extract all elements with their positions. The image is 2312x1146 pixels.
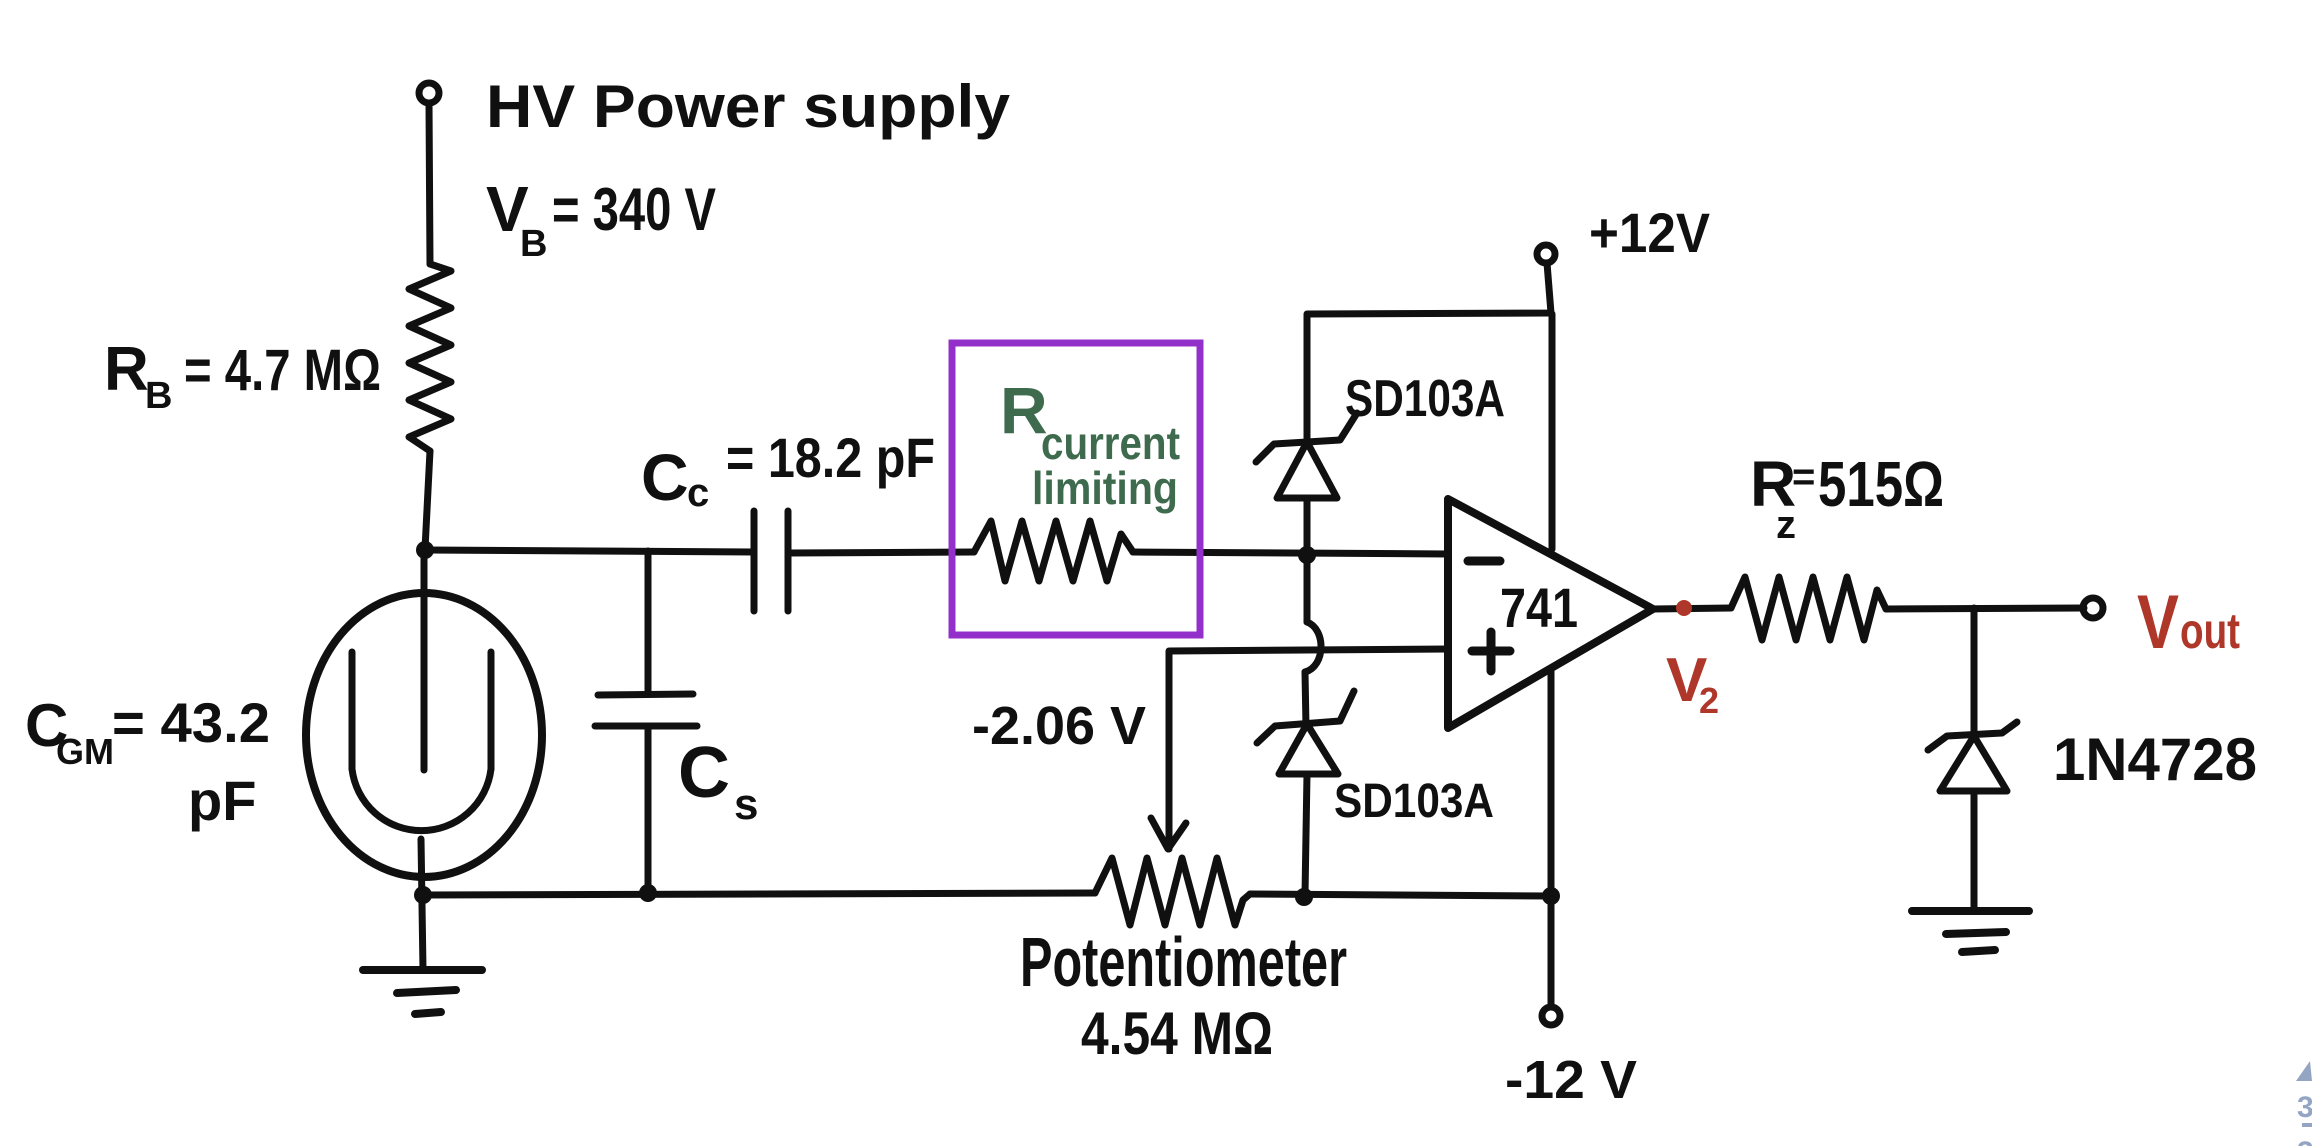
- svg-text:515Ω: 515Ω: [1818, 448, 1944, 520]
- svg-text:SD103A: SD103A: [1345, 370, 1505, 428]
- svg-text:= 43.2: = 43.2: [112, 691, 270, 754]
- svg-text:+12V: +12V: [1589, 201, 1710, 264]
- svg-text:limiting: limiting: [1032, 462, 1178, 514]
- svg-text:s: s: [734, 780, 758, 829]
- svg-text:1N4728: 1N4728: [2053, 726, 2257, 793]
- svg-text:out: out: [2180, 603, 2240, 659]
- svg-text:=: =: [1792, 455, 1815, 499]
- svg-text:C: C: [641, 440, 689, 514]
- svg-text:V: V: [2137, 580, 2179, 665]
- svg-text:B: B: [520, 223, 547, 265]
- svg-text:B: B: [145, 375, 172, 417]
- svg-text:SD103A: SD103A: [1334, 775, 1494, 828]
- svg-text:Potentiometer: Potentiometer: [1020, 923, 1347, 1001]
- svg-text:-12 V: -12 V: [1505, 1050, 1637, 1110]
- svg-text:c: c: [687, 471, 709, 515]
- svg-text:z: z: [1776, 503, 1796, 547]
- svg-text:-2.06 V: -2.06 V: [972, 696, 1146, 756]
- svg-text:GM: GM: [56, 731, 114, 772]
- svg-text:R: R: [104, 335, 149, 404]
- svg-text:741: 741: [1500, 576, 1578, 639]
- svg-text:= 340 V: = 340 V: [552, 176, 716, 243]
- svg-text:= 4.7 MΩ: = 4.7 MΩ: [184, 338, 381, 403]
- svg-text:3.: 3.: [2297, 1091, 2312, 1124]
- svg-text:4.54 MΩ: 4.54 MΩ: [1081, 1000, 1273, 1067]
- svg-text:2: 2: [1699, 680, 1719, 721]
- svg-text:3: 3: [2297, 1136, 2312, 1146]
- svg-text:pF: pF: [188, 769, 256, 832]
- svg-text:= 18.2 pF: = 18.2 pF: [726, 426, 935, 489]
- svg-text:HV Power supply: HV Power supply: [486, 73, 1011, 140]
- svg-text:C: C: [678, 733, 730, 813]
